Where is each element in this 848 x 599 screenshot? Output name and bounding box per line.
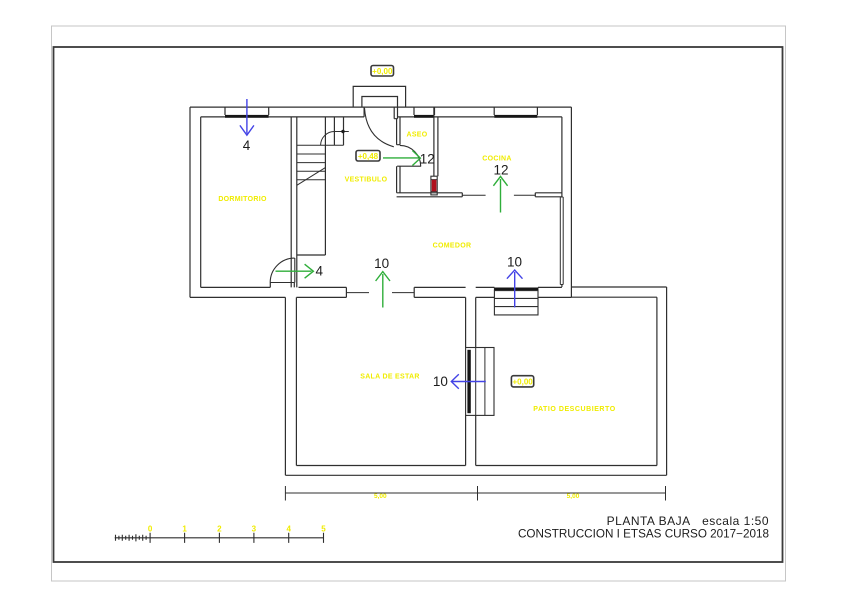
svg-text:COCINA: COCINA <box>482 156 511 163</box>
stair top tread <box>297 144 344 146</box>
dormitorio door leaf <box>294 258 296 283</box>
label box +0,00 top <box>371 66 394 77</box>
svg-text:DORMITORIO: DORMITORIO <box>218 196 267 203</box>
wall vestibule right lower <box>397 166 400 193</box>
svg-text:+0,00: +0,00 <box>372 67 393 76</box>
arrow green right aseo <box>383 151 420 166</box>
svg-text:5,00: 5,00 <box>374 493 387 500</box>
sala opening caps <box>346 287 414 297</box>
threshold cocina door left <box>462 194 485 196</box>
svg-text:5,00: 5,00 <box>567 493 580 500</box>
arrow green right dormitorio door <box>276 264 314 278</box>
svg-text:CONSTRUCCION I ETSAS CURSO 201: CONSTRUCCION I ETSAS CURSO 2017−2018 <box>518 527 769 540</box>
window cocina <box>494 107 537 118</box>
svg-text:3: 3 <box>252 524 257 533</box>
sala left inner wall <box>295 297 297 465</box>
stair treads <box>297 154 326 180</box>
wall divider right piece <box>535 193 562 197</box>
arrow green up sala <box>376 272 390 308</box>
drawing frame <box>54 47 783 562</box>
stair cut diagonal <box>297 168 326 186</box>
window comedor right wall <box>560 197 563 285</box>
dormitorio door arc <box>270 258 294 282</box>
wire left outer wall <box>189 107 191 297</box>
label box +0,00 patio <box>511 376 533 387</box>
arrow green up cocina <box>493 176 507 212</box>
window unit sala-patio <box>466 348 494 416</box>
stair bottom cap <box>297 254 326 256</box>
dormitorio door jambs <box>270 283 294 288</box>
window aseo <box>414 107 435 118</box>
bottom band outer line <box>190 296 571 298</box>
svg-text:10: 10 <box>433 374 448 389</box>
svg-text:4: 4 <box>243 138 251 153</box>
label box +0,48 vestibulo <box>356 151 380 162</box>
wall stair right <box>324 117 326 255</box>
scale bar <box>115 533 324 543</box>
svg-text:12: 12 <box>493 163 508 178</box>
wire top outer wall <box>190 106 571 108</box>
stair rail dot <box>341 130 344 133</box>
porch outer <box>353 86 405 107</box>
wire right inner wall <box>561 117 563 287</box>
svg-text:VESTIBULO: VESTIBULO <box>345 177 388 184</box>
svg-text:10: 10 <box>374 256 389 271</box>
bottom inner wall patio <box>476 465 657 467</box>
stair rail arc <box>321 132 349 146</box>
aseo door arc <box>400 145 421 166</box>
wire top inner wall <box>201 116 562 118</box>
porch inner <box>362 97 398 108</box>
svg-text:SALA DE ESTAR: SALA DE ESTAR <box>360 374 420 381</box>
svg-text:ASEO: ASEO <box>406 132 427 139</box>
svg-text:10: 10 <box>507 254 522 269</box>
svg-text:0: 0 <box>148 524 153 533</box>
svg-text:2: 2 <box>217 524 222 533</box>
svg-text:PATIO DESCUBIERTO: PATIO DESCUBIERTO <box>533 406 615 413</box>
wall aseo right <box>434 107 438 176</box>
bottom outer wall lower block <box>285 474 666 476</box>
entrance door jambs <box>364 107 397 119</box>
svg-text:1: 1 <box>182 524 187 533</box>
bottom inner wall sala <box>296 465 465 467</box>
divider sala-patio wall <box>466 297 476 465</box>
window comedor bottom <box>494 287 538 290</box>
svg-text:+0,48: +0,48 <box>358 152 379 161</box>
bottom band inner line <box>201 286 562 288</box>
svg-text:4: 4 <box>286 524 291 533</box>
svg-text:+0,00: +0,00 <box>512 378 533 387</box>
radiator frame <box>431 176 437 195</box>
aseo door leaf <box>397 165 421 167</box>
dormitorio door threshold <box>270 282 294 284</box>
sala opening threshold <box>347 292 415 294</box>
patio right outer wall <box>666 287 668 475</box>
patio top wall <box>571 287 666 297</box>
wall vestibule right upper <box>397 117 400 145</box>
sala left outer wall <box>284 297 286 475</box>
arrow blue left sala window <box>451 374 486 389</box>
svg-text:4: 4 <box>316 263 324 278</box>
arrow blue up comedor <box>507 270 523 307</box>
steps patio <box>494 291 538 315</box>
svg-text:PLANTA BAJA escala 1:50: PLANTA BAJA escala 1:50 <box>607 514 769 528</box>
window dormitorio <box>225 107 269 118</box>
entrance door leaf arc <box>365 108 394 147</box>
stair landing walls <box>334 117 343 145</box>
dimension line lower block <box>285 486 665 501</box>
svg-text:5: 5 <box>321 524 326 533</box>
wall stair left <box>291 117 297 288</box>
arrow blue down dormitorio <box>240 99 254 135</box>
svg-text:12: 12 <box>420 151 435 166</box>
wire left inner wall <box>200 117 202 288</box>
threshold cocina door right <box>514 194 535 196</box>
svg-text:COMEDOR: COMEDOR <box>433 242 472 249</box>
wire right outer wall <box>570 107 572 297</box>
wall divider cocina-comedor <box>397 193 463 197</box>
patio right inner wall <box>656 297 658 465</box>
